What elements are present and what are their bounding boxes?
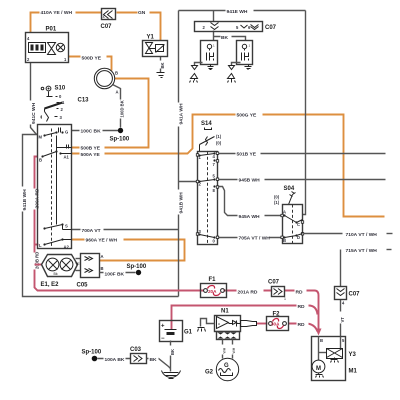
svg-text:G1: G1 bbox=[184, 330, 193, 336]
ignition switch S10 bbox=[41, 86, 66, 122]
wire 410A YE/WH from P01 pin4 to C07 bbox=[31, 9, 102, 33]
switch block S14 bbox=[196, 152, 218, 245]
regulator N1 bbox=[215, 309, 257, 332]
svg-text:710A VT / WH: 710A VT / WH bbox=[346, 232, 378, 238]
svg-text:GN: GN bbox=[138, 10, 146, 16]
svg-text:S: S bbox=[65, 224, 68, 229]
svg-text:YE: YE bbox=[75, 262, 80, 266]
wire 100F BK to splice Sp-100 mid bbox=[100, 264, 147, 277]
svg-text:BK: BK bbox=[150, 357, 158, 363]
svg-text:F1: F1 bbox=[209, 277, 217, 283]
svg-text:30A: 30A bbox=[271, 322, 280, 327]
hourmeter P01 bbox=[26, 27, 69, 63]
solenoid valve Y1 bbox=[143, 35, 168, 57]
svg-text:RD: RD bbox=[296, 289, 304, 295]
wire 100D BK from C13 pin A to Sp-100 bbox=[113, 85, 125, 128]
wire 705A VT/WH from S14 pin3 to S04 pin B bbox=[218, 234, 283, 242]
lamps E1,E2 bbox=[41, 255, 78, 289]
svg-text:C13: C13 bbox=[78, 98, 90, 104]
svg-text:WH: WH bbox=[232, 347, 236, 353]
svg-text:(1): (1) bbox=[274, 200, 280, 205]
wire 945B WH from S14 pin5 bbox=[218, 176, 386, 184]
svg-text:F2: F2 bbox=[273, 312, 281, 318]
svg-text:500A YE: 500A YE bbox=[81, 152, 101, 158]
shield ground below sensor 1 bbox=[190, 63, 203, 83]
connector C07 on 715A line bbox=[335, 287, 361, 300]
svg-text:C05: C05 bbox=[77, 283, 89, 289]
key switch block (left) bbox=[38, 125, 72, 250]
svg-text:500D YE: 500D YE bbox=[82, 56, 102, 62]
svg-text:+: + bbox=[161, 324, 165, 330]
svg-text:A1: A1 bbox=[64, 155, 70, 160]
svg-text:Y3: Y3 bbox=[349, 352, 357, 358]
sensor unit 2 (top right) bbox=[237, 41, 253, 65]
wire 710A VT/WH from S04 pin D bbox=[303, 232, 393, 238]
fuse F2 30A bbox=[267, 312, 289, 331]
svg-text:945B WH: 945B WH bbox=[239, 178, 261, 184]
connector C07 long (top right) bbox=[195, 22, 277, 32]
battery G1 bbox=[160, 321, 193, 343]
sensor unit 1 (top right) bbox=[201, 41, 218, 65]
svg-text:C03: C03 bbox=[130, 347, 142, 353]
svg-text:B: B bbox=[115, 71, 118, 76]
svg-text:B: B bbox=[283, 238, 286, 243]
splice Sp-100 bottom bbox=[82, 350, 102, 362]
generator G2 bbox=[205, 358, 239, 380]
ground below Y1 bbox=[157, 73, 165, 78]
wire stub pink to E1,E2 bbox=[35, 264, 42, 266]
svg-text:G2: G2 bbox=[205, 370, 214, 376]
svg-text:20A: 20A bbox=[208, 289, 217, 294]
svg-text:BK: BK bbox=[160, 62, 165, 68]
svg-text:S14: S14 bbox=[201, 121, 212, 127]
wire 200A RD / 200B RD from switch box pin B down to F1 bbox=[31, 157, 204, 291]
connector C07 on F1 line bbox=[268, 280, 286, 302]
svg-text:Bk: Bk bbox=[54, 272, 58, 276]
svg-text:(0): (0) bbox=[274, 195, 280, 200]
svg-text:VT: VT bbox=[340, 317, 345, 323]
earth ground below G1 bbox=[162, 371, 181, 379]
diode bridge below N1 bbox=[217, 332, 240, 340]
svg-text:N1: N1 bbox=[221, 309, 229, 315]
switch S14 lever bbox=[200, 121, 222, 152]
svg-text:100C BK: 100C BK bbox=[81, 128, 102, 134]
svg-text:Sp-100: Sp-100 bbox=[110, 137, 130, 143]
connector C13 bbox=[78, 68, 119, 103]
wire 941E WH top bus bbox=[179, 7, 306, 15]
svg-text:RD: RD bbox=[298, 304, 306, 310]
splice Sp-100 top bbox=[110, 128, 130, 143]
svg-text:Sp-100: Sp-100 bbox=[82, 350, 102, 356]
svg-text:941B WH: 941B WH bbox=[22, 189, 28, 211]
svg-text:100F BK: 100F BK bbox=[105, 271, 125, 277]
wire 201A RD from F1 to C07 bbox=[224, 288, 272, 296]
svg-text:S04: S04 bbox=[284, 186, 295, 192]
svg-text:B: B bbox=[320, 338, 323, 343]
svg-text:700A VT: 700A VT bbox=[82, 228, 101, 234]
svg-text:500G YE: 500G YE bbox=[237, 113, 257, 119]
solenoid Y3 inside M1 bbox=[319, 337, 357, 363]
svg-text:S10: S10 bbox=[55, 86, 66, 92]
wire 501B YE from S14 pin4 bbox=[218, 150, 386, 158]
svg-text:941B WH: 941B WH bbox=[179, 192, 185, 214]
wire 700A VT from switch box to spine bbox=[72, 227, 179, 234]
svg-text:−: − bbox=[161, 336, 165, 342]
svg-text:C07: C07 bbox=[268, 280, 280, 286]
svg-text:B: B bbox=[101, 266, 104, 271]
chassis ground below sensor 1 bbox=[208, 65, 214, 70]
svg-text:M: M bbox=[316, 366, 321, 372]
connector C07 top-left bbox=[101, 9, 116, 31]
svg-text:100A BK: 100A BK bbox=[105, 357, 125, 363]
svg-text:960A YE / WH: 960A YE / WH bbox=[86, 238, 118, 244]
svg-text:A: A bbox=[283, 210, 286, 215]
svg-text:705A VT / WH: 705A VT / WH bbox=[239, 236, 271, 242]
svg-text:A: A bbox=[116, 90, 119, 95]
wire from top bus down to S04 pin C bbox=[303, 11, 306, 215]
wire RD arrowhead into pin B bbox=[316, 329, 322, 336]
svg-text:C07: C07 bbox=[101, 24, 113, 30]
wire RD from C07 to M1 pin B bbox=[285, 288, 319, 334]
wire 715A VT/WH down to C07 and M1 pin 5 bbox=[337, 248, 392, 337]
wire BK from G1 to earth ground bbox=[167, 341, 176, 372]
starter assembly M1 bbox=[312, 337, 358, 381]
wire 960A YE/WH from switch box to C05 pin A bbox=[72, 236, 185, 261]
svg-text:410A YE / WH: 410A YE / WH bbox=[41, 10, 73, 16]
svg-text:G: G bbox=[65, 130, 68, 135]
svg-text:Y1: Y1 bbox=[147, 35, 155, 41]
svg-text:C: C bbox=[297, 222, 300, 227]
svg-text:B: B bbox=[39, 158, 42, 163]
wire 945A WH from S14 pin8 to S04 pin A bbox=[218, 187, 283, 220]
svg-text:P01: P01 bbox=[46, 27, 57, 33]
wire stub to S14 pin 2 bbox=[179, 181, 198, 183]
svg-text:L: L bbox=[39, 243, 42, 248]
svg-text:715A VT / WH: 715A VT / WH bbox=[346, 248, 378, 254]
wire RD from G1 + to M1 pin B bbox=[172, 303, 318, 330]
shield ground below sensor 2 bbox=[228, 63, 241, 83]
wire GN from C07 to Y1 bbox=[117, 9, 161, 41]
wire 100A BK to C03 bbox=[98, 355, 131, 363]
svg-text:941A WH: 941A WH bbox=[179, 103, 185, 124]
wire 500A YE / 500G YE from switch box to right edge bbox=[72, 111, 385, 217]
wire 500B YE from C13 pin B to switch box bbox=[72, 79, 149, 152]
wires WH from bridge to G2 bbox=[219, 340, 237, 359]
svg-text:501B YE: 501B YE bbox=[237, 152, 257, 158]
svg-text:200B RD: 200B RD bbox=[35, 252, 40, 269]
wire BK from Y1 to ground bbox=[157, 57, 166, 73]
ground stub N1 left pin bbox=[198, 319, 215, 332]
wire RD from N1 via F2 to M1 pin B bbox=[257, 321, 318, 332]
svg-text:945A WH: 945A WH bbox=[239, 214, 260, 220]
svg-text:Sp-100: Sp-100 bbox=[127, 264, 147, 270]
motor M inside M1 bbox=[312, 360, 325, 377]
svg-text:(0): (0) bbox=[216, 141, 222, 146]
svg-text:A: A bbox=[101, 254, 104, 259]
switch block S04 bbox=[281, 205, 304, 244]
svg-text:RD: RD bbox=[298, 322, 306, 328]
svg-text:C07: C07 bbox=[265, 25, 277, 31]
switch S04 lever bbox=[274, 186, 296, 205]
wire drop C07 pin2 to sensor boxes bbox=[213, 11, 215, 41]
svg-text:u: u bbox=[218, 322, 220, 326]
svg-text:BK: BK bbox=[170, 349, 175, 355]
connector C03 bbox=[130, 347, 147, 364]
fuse F1 20A bbox=[201, 277, 227, 298]
wire 941C WH from P01 pin2 to pin M bbox=[28, 63, 38, 135]
svg-text:E1, E2: E1, E2 bbox=[41, 282, 60, 288]
svg-text:D: D bbox=[297, 235, 300, 240]
svg-text:1: 1 bbox=[284, 297, 286, 301]
svg-text:M: M bbox=[39, 135, 43, 140]
connector C05 bbox=[75, 254, 104, 289]
wire WH bottom bus to switch box pin M bbox=[19, 135, 179, 297]
svg-text:M1: M1 bbox=[349, 369, 358, 375]
chassis ground below sensor 2 bbox=[245, 65, 252, 70]
svg-text:BK: BK bbox=[221, 35, 229, 41]
wire 500D YE from P01 pin1 to C13 pin B bbox=[69, 54, 112, 71]
svg-text:WH: WH bbox=[223, 347, 227, 353]
svg-text:C07: C07 bbox=[349, 292, 361, 298]
svg-text:201A RD: 201A RD bbox=[238, 289, 258, 295]
svg-text:A2: A2 bbox=[64, 245, 70, 250]
wire BK from C03 to earth bbox=[147, 355, 171, 369]
svg-text:100D BK: 100D BK bbox=[120, 100, 125, 117]
svg-text:941E WH: 941E WH bbox=[227, 9, 248, 15]
wire 941A WH / 941B WH vertical spine bbox=[175, 11, 185, 297]
svg-text:941C WH: 941C WH bbox=[31, 102, 37, 124]
svg-text:(1): (1) bbox=[216, 134, 222, 139]
wire BK between sensor boxes bbox=[214, 33, 246, 41]
wire 100C BK from switch box to Sp-100 bbox=[72, 127, 119, 135]
